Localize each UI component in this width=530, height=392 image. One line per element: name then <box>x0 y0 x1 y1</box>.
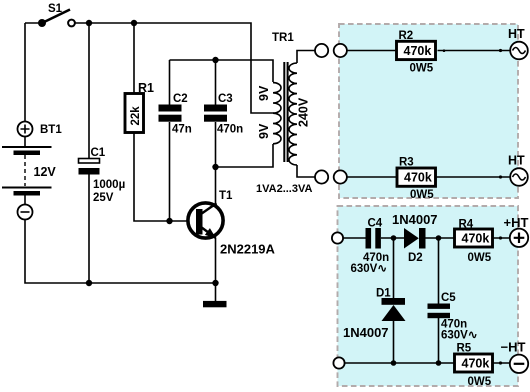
svg-text:470k: 470k <box>462 356 490 370</box>
svg-text:HT: HT <box>508 154 525 168</box>
svg-text:470k: 470k <box>462 232 490 246</box>
svg-text:R3: R3 <box>399 157 414 169</box>
svg-text:9V: 9V <box>257 85 271 101</box>
svg-text:R1: R1 <box>138 81 154 95</box>
svg-text:12V: 12V <box>34 165 57 179</box>
svg-text:BT1: BT1 <box>40 124 62 136</box>
svg-text:T1: T1 <box>219 190 233 202</box>
svg-text:C1: C1 <box>91 147 106 159</box>
svg-text:9V: 9V <box>257 123 271 139</box>
svg-text:630V∿: 630V∿ <box>351 263 388 275</box>
svg-text:D2: D2 <box>408 252 423 264</box>
svg-text:C4: C4 <box>368 218 383 230</box>
svg-text:0W5: 0W5 <box>410 189 434 201</box>
svg-text:1N4007: 1N4007 <box>392 212 438 227</box>
svg-text:C5: C5 <box>441 292 456 304</box>
svg-text:470k: 470k <box>404 44 432 58</box>
svg-text:0W5: 0W5 <box>410 63 434 75</box>
svg-text:240V: 240V <box>297 97 311 127</box>
svg-text:1VA2...3VA: 1VA2...3VA <box>256 183 313 195</box>
svg-text:47n: 47n <box>172 124 192 136</box>
svg-text:470k: 470k <box>404 171 432 185</box>
svg-text:R4: R4 <box>459 219 474 231</box>
svg-text:R2: R2 <box>399 30 414 42</box>
svg-text:S1: S1 <box>48 3 63 15</box>
svg-text:630V∿: 630V∿ <box>441 330 478 342</box>
svg-text:0W5: 0W5 <box>468 252 492 264</box>
svg-text:2N2219A: 2N2219A <box>220 242 276 257</box>
svg-text:R5: R5 <box>457 343 472 355</box>
svg-text:470n: 470n <box>217 124 243 136</box>
svg-text:D1: D1 <box>376 288 391 300</box>
svg-text:HT: HT <box>508 27 525 41</box>
svg-text:0W5: 0W5 <box>468 376 492 388</box>
svg-text:22k: 22k <box>130 106 142 126</box>
svg-text:C3: C3 <box>218 93 233 105</box>
svg-text:TR1: TR1 <box>272 32 294 44</box>
svg-text:+HT: +HT <box>504 215 529 230</box>
svg-text:C2: C2 <box>173 93 188 105</box>
svg-text:1N4007: 1N4007 <box>343 325 389 340</box>
svg-text:25V: 25V <box>93 192 114 204</box>
svg-text:−HT: −HT <box>501 340 526 355</box>
svg-text:1000µ: 1000µ <box>93 179 125 191</box>
